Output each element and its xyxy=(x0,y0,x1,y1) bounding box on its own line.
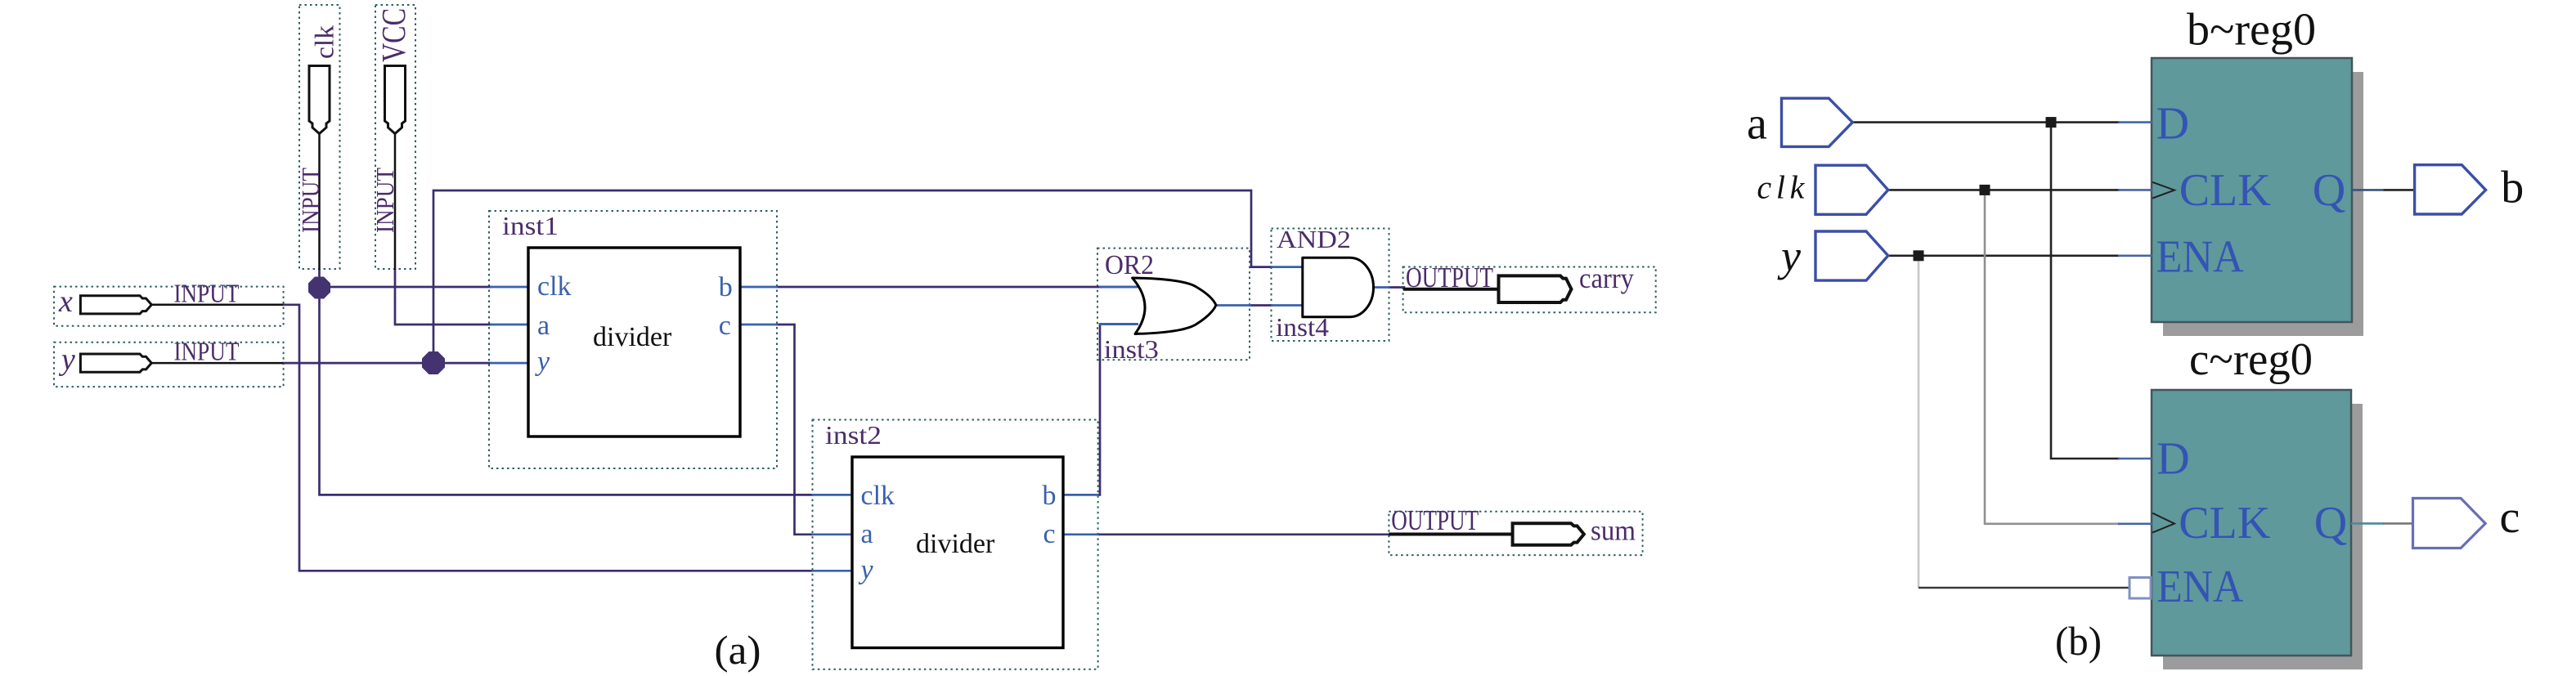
svg-text:y: y xyxy=(535,347,550,377)
svg-text:carry: carry xyxy=(1579,262,1634,294)
svg-text:Q: Q xyxy=(2314,498,2347,548)
svg-text:OUTPUT: OUTPUT xyxy=(1391,504,1479,536)
svg-text:y: y xyxy=(1777,231,1801,280)
svg-text:Q: Q xyxy=(2313,165,2345,216)
svg-text:y: y xyxy=(859,555,874,585)
svg-text:c: c xyxy=(719,311,731,341)
svg-text:INPUT: INPUT xyxy=(174,279,240,308)
svg-text:a: a xyxy=(1747,99,1767,150)
svg-text:AND2: AND2 xyxy=(1277,225,1351,253)
svg-text:CLK: CLK xyxy=(2179,498,2270,548)
svg-text:(b): (b) xyxy=(2055,618,2102,664)
svg-text:D: D xyxy=(2156,98,2189,149)
svg-text:divider: divider xyxy=(593,322,672,352)
svg-text:OUTPUT: OUTPUT xyxy=(1406,262,1493,293)
svg-text:inst3: inst3 xyxy=(1104,334,1159,364)
svg-text:sum: sum xyxy=(1591,515,1636,547)
svg-text:INPUT: INPUT xyxy=(174,337,240,366)
svg-text:a: a xyxy=(861,519,873,549)
svg-text:a: a xyxy=(537,311,550,341)
svg-text:inst4: inst4 xyxy=(1276,312,1329,342)
svg-text:clk: clk xyxy=(1757,168,1805,205)
svg-text:clk: clk xyxy=(311,25,340,59)
svg-text:(a): (a) xyxy=(715,627,761,673)
svg-text:b~reg0: b~reg0 xyxy=(2187,5,2316,56)
svg-text:y: y xyxy=(58,342,75,377)
svg-text:ENA: ENA xyxy=(2156,562,2244,612)
svg-text:inst2: inst2 xyxy=(825,420,882,450)
svg-text:clk: clk xyxy=(861,481,895,511)
svg-text:ENA: ENA xyxy=(2156,232,2245,283)
svg-text:clk: clk xyxy=(537,271,572,302)
svg-text:INPUT: INPUT xyxy=(370,168,399,233)
svg-text:b: b xyxy=(719,272,733,302)
svg-text:CLK: CLK xyxy=(2179,165,2271,216)
svg-text:c~reg0: c~reg0 xyxy=(2189,334,2313,385)
svg-text:INPUT: INPUT xyxy=(296,168,325,233)
svg-text:inst1: inst1 xyxy=(502,211,559,240)
svg-text:D: D xyxy=(2156,433,2189,484)
svg-text:b: b xyxy=(1043,481,1057,511)
svg-text:divider: divider xyxy=(916,529,995,559)
svg-text:c: c xyxy=(2500,492,2520,543)
svg-text:c: c xyxy=(1043,519,1056,549)
svg-text:b: b xyxy=(2501,163,2524,213)
svg-text:x: x xyxy=(58,284,73,319)
svg-text:OR2: OR2 xyxy=(1105,250,1154,280)
svg-text:VCC: VCC xyxy=(375,8,412,62)
